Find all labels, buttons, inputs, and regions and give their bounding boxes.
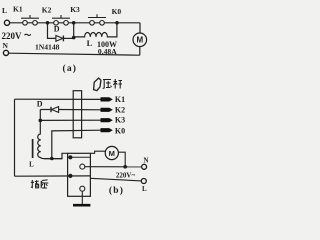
wire right drop to motor (a) bbox=[139, 23, 141, 33]
node motor-N junction (b) bbox=[123, 165, 127, 169]
node junctions (a) bbox=[46, 21, 119, 39]
socket box (b) bbox=[68, 153, 91, 196]
svg-text:L: L bbox=[2, 6, 7, 15]
wire K0 line (b) bbox=[52, 130, 101, 158]
wire motor right drop (b) bbox=[118, 152, 125, 167]
motor M (a) bbox=[133, 33, 147, 47]
socket terminal L (b) bbox=[80, 186, 85, 191]
wire bottom return N (a) bbox=[9, 53, 140, 55]
socket terminal N (b) bbox=[80, 164, 85, 169]
svg-text:L: L bbox=[87, 38, 93, 48]
wire motor left (b) bbox=[90, 151, 105, 153]
node diode-coil (b) bbox=[39, 119, 43, 123]
label 插座 glyphs (b) bbox=[31, 180, 49, 188]
terminal N (b) bbox=[142, 164, 147, 169]
motor M (b) bbox=[105, 146, 118, 159]
svg-text:(b): (b) bbox=[109, 185, 124, 196]
svg-text:220V: 220V bbox=[2, 31, 23, 41]
lever flag (b) bbox=[94, 78, 101, 91]
wire motor bottom drop (a) bbox=[139, 47, 141, 56]
wire diode stub vertical (b) bbox=[39, 110, 41, 121]
svg-text:K2: K2 bbox=[115, 105, 125, 114]
svg-text:M: M bbox=[136, 36, 143, 45]
wire diode branch right (a) bbox=[63, 37, 73, 39]
svg-text:M: M bbox=[109, 149, 115, 158]
arrow K2 (b) bbox=[101, 108, 113, 112]
label 压杆 glyphs (b) bbox=[103, 79, 122, 89]
svg-text:D: D bbox=[54, 25, 60, 34]
terminal N (a) bbox=[3, 50, 8, 55]
box left edge (b) bbox=[14, 99, 16, 176]
svg-text:K0: K0 bbox=[115, 127, 125, 136]
svg-text:K3: K3 bbox=[115, 116, 125, 125]
wire K3 node line (b) bbox=[40, 119, 101, 121]
arrow K3 (b) bbox=[101, 118, 113, 122]
box bottom edge through socket (b) bbox=[15, 175, 91, 177]
diode D (b) bbox=[51, 107, 59, 113]
svg-text:L: L bbox=[29, 161, 34, 169]
wire top main (a) bbox=[10, 22, 140, 24]
switch block (b) bbox=[73, 91, 81, 138]
inductor L2 core bar (b) bbox=[32, 139, 34, 158]
switch K2 bbox=[52, 15, 70, 25]
wire coil bottom to socket (b) bbox=[45, 158, 63, 160]
svg-text:0.48A: 0.48A bbox=[98, 47, 117, 56]
svg-text:1N4148: 1N4148 bbox=[35, 42, 60, 51]
inductor L1 coil (a) bbox=[74, 23, 117, 37]
svg-text:220V~: 220V~ bbox=[116, 171, 136, 179]
svg-text:K3: K3 bbox=[70, 5, 80, 14]
wire node vertical to coil (b) bbox=[39, 120, 41, 133]
svg-text:K1: K1 bbox=[13, 5, 23, 14]
socket pin dark bottom (b) bbox=[68, 174, 72, 178]
arrow K1 (b) bbox=[101, 97, 113, 101]
diode D (a) bbox=[56, 36, 64, 42]
inductor L2 coil (b) bbox=[38, 134, 68, 159]
wire diode branch left drop (a) bbox=[48, 23, 56, 39]
wire N line (b) bbox=[85, 166, 142, 168]
node coil bottom (b) bbox=[50, 157, 54, 161]
arrow K0 (b) bbox=[101, 128, 113, 132]
svg-text:D: D bbox=[37, 100, 43, 109]
terminal L (b) bbox=[141, 179, 146, 184]
svg-text:K0: K0 bbox=[112, 7, 122, 16]
svg-text:N: N bbox=[3, 41, 9, 50]
switch K3 bbox=[88, 14, 106, 25]
svg-text:L: L bbox=[142, 185, 147, 193]
ground stem (b) bbox=[81, 191, 83, 204]
wire center drop node (a) bbox=[73, 23, 75, 39]
terminal L (a) bbox=[4, 20, 9, 25]
svg-text:K2: K2 bbox=[42, 6, 52, 15]
switch K1 bbox=[21, 15, 39, 25]
wire K1 line / box top edge (b) bbox=[15, 98, 102, 100]
ground bar (b) bbox=[73, 204, 90, 207]
socket inner line top (b) bbox=[68, 156, 91, 158]
svg-text:(a): (a) bbox=[62, 63, 77, 74]
socket pin dark top (b) bbox=[68, 155, 72, 159]
wire K2 diode line right (b) bbox=[59, 109, 101, 111]
svg-text:K1: K1 bbox=[115, 95, 125, 104]
svg-text:N: N bbox=[143, 156, 148, 164]
wire L line (b) bbox=[90, 178, 141, 181]
wire K2 diode line left (b) bbox=[40, 109, 50, 111]
